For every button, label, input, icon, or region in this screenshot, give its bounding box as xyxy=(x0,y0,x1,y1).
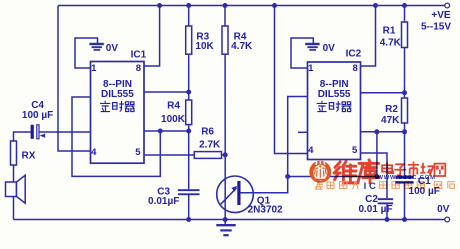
wire IC2 pin 4 riser to +VE rail xyxy=(275,6,308,154)
wire IC1 pin 7 to R3/R4 node xyxy=(144,91,189,93)
capacitor C1 100uF plates xyxy=(395,176,413,184)
ground 0V symbol above IC2 xyxy=(305,44,319,50)
node rail/R1 xyxy=(402,3,407,8)
svg-text:0.01 µF: 0.01 µF xyxy=(358,204,392,215)
wire mid horizontal net xyxy=(288,176,377,178)
wire C4 left plate to RX top xyxy=(14,132,32,141)
resistor R2 47K xyxy=(402,98,408,123)
wire speaker to bottom rail xyxy=(13,197,15,220)
svg-text:R2: R2 xyxy=(385,104,398,115)
node rail/pin8 IC2 xyxy=(373,3,378,8)
speaker LS1 xyxy=(6,182,17,197)
ground 0V symbol above IC1 xyxy=(89,44,103,50)
IC2 box DIL555 xyxy=(308,62,361,160)
node base/mid net left xyxy=(285,174,290,179)
node rail/C1 xyxy=(402,217,407,222)
wire R4b top lead from rail xyxy=(224,6,226,27)
svg-text:+VE: +VE xyxy=(431,10,451,21)
capacitor C4 polarity arrow xyxy=(40,134,46,138)
capacitor C4 100uF plates xyxy=(31,125,46,139)
wire IC1 left pin around bottom to node at (160,131) xyxy=(72,97,160,176)
wire IC2 pin 1 to 0V symbol branch xyxy=(291,38,313,68)
svg-text:0V: 0V xyxy=(106,43,119,54)
node emitter R6/R4b xyxy=(223,152,228,157)
wire emitter node down to Q1 xyxy=(224,155,226,179)
node rail/pin8 IC1 xyxy=(157,3,162,8)
resistor R4 100K xyxy=(186,100,192,125)
capacitor C3 0.01uF plates xyxy=(178,189,200,195)
wire C2 to bottom rail xyxy=(386,204,388,219)
resistor R6 2.7K xyxy=(194,152,221,159)
wire R6 right lead to emitter node xyxy=(222,154,226,156)
svg-text:5: 5 xyxy=(352,145,358,156)
svg-text:I: I xyxy=(364,181,367,192)
wire IC1 pins 2/6 to R4 bottom node xyxy=(144,130,189,132)
wire IC1 pin 8 riser to +VE rail xyxy=(144,6,160,67)
node rail/R3 xyxy=(186,3,191,8)
wire R3 top lead xyxy=(188,6,190,27)
wire 0V bottom rail xyxy=(14,219,445,221)
svg-text:5: 5 xyxy=(135,147,141,158)
svg-text:DIL555: DIL555 xyxy=(318,89,351,100)
wire C1 to bottom rail xyxy=(404,183,406,219)
resistor R4 4.7K xyxy=(222,26,228,54)
wire IC2 pin 5 to C2 xyxy=(358,153,387,198)
terminal 0V open circle xyxy=(445,217,450,222)
wire IC1 pin 1 to 0V symbol branch xyxy=(75,38,98,68)
node rail/IC2 pin4 xyxy=(272,3,277,8)
svg-text:4: 4 xyxy=(91,147,97,158)
wire R2 bottom to C1 xyxy=(404,123,406,176)
node rail/Q1 collector xyxy=(223,217,228,222)
wire C3 to bottom rail xyxy=(188,195,190,220)
svg-text:47K: 47K xyxy=(381,115,400,126)
wire node B down to C3 xyxy=(188,131,190,189)
svg-text:IC2: IC2 xyxy=(346,49,362,60)
node mid net right xyxy=(374,174,379,179)
wire IC2 pin 7 to R1/R2 node xyxy=(361,92,405,94)
svg-text:4: 4 xyxy=(308,145,314,156)
svg-text:8: 8 xyxy=(353,63,358,74)
wire IC2 left pin around to mid node xyxy=(288,97,308,177)
wire left +V drop to IC1 pin 4 xyxy=(58,6,91,152)
wire R4b bottom lead down to emitter node xyxy=(224,54,226,155)
svg-text:WWW.DZSC.COM: WWW.DZSC.COM xyxy=(378,175,436,181)
svg-text:1: 1 xyxy=(91,63,97,74)
label IC1 Chinese timer text xyxy=(100,101,135,112)
svg-text:0V: 0V xyxy=(437,204,450,215)
ground symbol below Q1 collector xyxy=(216,220,235,236)
node R1/R2/pin7 IC2 xyxy=(402,90,407,95)
watermark text electronics-market-net xyxy=(382,162,445,177)
svg-text:100 µF: 100 µF xyxy=(22,110,53,121)
wire IC2 pin 8 riser to +VE rail xyxy=(361,6,376,67)
label IC2 Chinese timer text xyxy=(317,101,352,112)
svg-text:C: C xyxy=(369,181,376,192)
svg-text:5--15V: 5--15V xyxy=(421,22,451,33)
wire RX bottom to speaker xyxy=(13,165,15,182)
svg-text:R4: R4 xyxy=(167,101,180,112)
wire Q1 base to mid node xyxy=(241,177,288,193)
svg-text:100K: 100K xyxy=(161,114,186,125)
wire right around vertical to mid net xyxy=(376,132,378,177)
watermark slogan global largest IC purchase site xyxy=(315,181,455,189)
node R2/C1/pins2-6 IC2 xyxy=(402,129,407,134)
wire IC1 pin 5 to R6 xyxy=(144,154,194,156)
wire Q1 collector to bottom rail xyxy=(224,210,226,220)
node rail/C3 xyxy=(186,217,191,222)
transistor Q1 2N3702 xyxy=(217,176,254,213)
wire R1 bottom to R2 top xyxy=(404,48,406,99)
svg-text:8: 8 xyxy=(136,63,141,74)
capacitor C2 0.01uF plates xyxy=(378,198,394,204)
wire IC2 pins 2/6 to R2 bottom node xyxy=(361,131,405,133)
wire R4 bottom lead xyxy=(188,125,190,131)
node rail/R4b xyxy=(223,3,228,8)
resistor R3 10K xyxy=(186,26,192,54)
svg-text:4.7K: 4.7K xyxy=(231,41,253,52)
node A R3/R4/pin7 xyxy=(186,90,191,95)
wire IC2 pins 2/6 stub xyxy=(298,131,308,133)
IC1 box DIL555 xyxy=(91,62,145,164)
svg-text:1: 1 xyxy=(308,63,314,74)
wire R1 top lead from rail xyxy=(404,6,406,23)
svg-text:DIL555: DIL555 xyxy=(101,89,134,100)
node B R4/pins2-6 xyxy=(186,129,191,134)
svg-text:RX: RX xyxy=(22,151,36,162)
node rail/C2 xyxy=(385,217,390,222)
watermark badge disc xyxy=(309,161,331,183)
node B around-wire join xyxy=(158,129,163,134)
watermark big text Wei-Ku xyxy=(334,160,379,183)
svg-text:2.7K: 2.7K xyxy=(199,140,221,151)
svg-text:R1: R1 xyxy=(383,26,396,37)
svg-text:2N3702: 2N3702 xyxy=(248,204,283,215)
svg-text:0V: 0V xyxy=(323,43,336,54)
svg-text:R6: R6 xyxy=(201,127,214,138)
wire C4 to IC1 pins 2/6 xyxy=(39,131,90,133)
node R2 bottom/around right xyxy=(374,129,379,134)
resistor RX xyxy=(11,141,17,165)
svg-text:4.7K: 4.7K xyxy=(380,37,402,48)
svg-text:10K: 10K xyxy=(195,41,214,52)
terminal +VE open circle xyxy=(445,3,450,8)
wire R3 bottom / R4 top lead xyxy=(188,54,190,100)
svg-text:0.01µF: 0.01µF xyxy=(148,196,179,207)
wire +VE top rail xyxy=(58,5,445,7)
svg-text:IC1: IC1 xyxy=(131,49,147,60)
resistor R1 4.7K xyxy=(402,22,408,48)
